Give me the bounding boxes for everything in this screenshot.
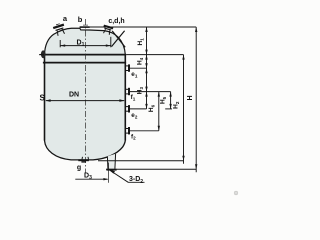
vessel vertical centerline <box>85 19 87 173</box>
dimension H5 <box>169 92 171 109</box>
svg-text:DN: DN <box>69 92 79 99</box>
svg-text:c,d,h: c,d,h <box>108 18 124 25</box>
flange reference extension line <box>126 54 183 56</box>
agitator X mark on head <box>112 31 126 48</box>
dimension H6 <box>158 92 160 131</box>
nozzle b (top centre manhole cover) <box>80 25 90 28</box>
girth flange line upper <box>44 54 126 56</box>
dimension H2 <box>182 55 184 164</box>
girth flange line lower <box>43 62 126 64</box>
left small nozzle at flange level <box>41 50 46 58</box>
leg bottom reference line <box>106 168 196 170</box>
top head outline <box>45 28 126 55</box>
dimension chain line (H1,H4,H3) <box>146 27 148 109</box>
dimension D3 <box>75 163 108 183</box>
bottom head outline <box>45 141 126 160</box>
leg top reference line <box>98 160 184 162</box>
side nozzle e1 <box>125 64 146 71</box>
leader and label 3-D2 <box>109 170 128 183</box>
small corner mark <box>234 191 238 195</box>
side nozzle e2 <box>125 105 172 112</box>
shell left wall <box>44 55 46 141</box>
svg-text:H: H <box>187 95 194 100</box>
nozzle a (tilted, upper-left of head) <box>53 23 67 37</box>
svg-text:b: b <box>78 15 83 24</box>
side nozzle f2 <box>125 127 159 134</box>
nozzle c,d,h (tilted, upper-right of head) <box>102 25 114 36</box>
svg-text:S: S <box>40 93 46 102</box>
side nozzle f1 <box>125 88 170 95</box>
dimension H (overall) <box>195 27 197 172</box>
bottom nozzle g <box>78 157 89 163</box>
shell right wall <box>124 55 126 141</box>
dimension D1 <box>60 37 111 48</box>
dimension DN <box>46 99 125 102</box>
svg-text:g: g <box>77 164 81 171</box>
support leg <box>106 154 116 171</box>
vessel body fill (head + shell + bottom head) <box>45 28 126 160</box>
top reference line (H datum) <box>90 26 196 28</box>
